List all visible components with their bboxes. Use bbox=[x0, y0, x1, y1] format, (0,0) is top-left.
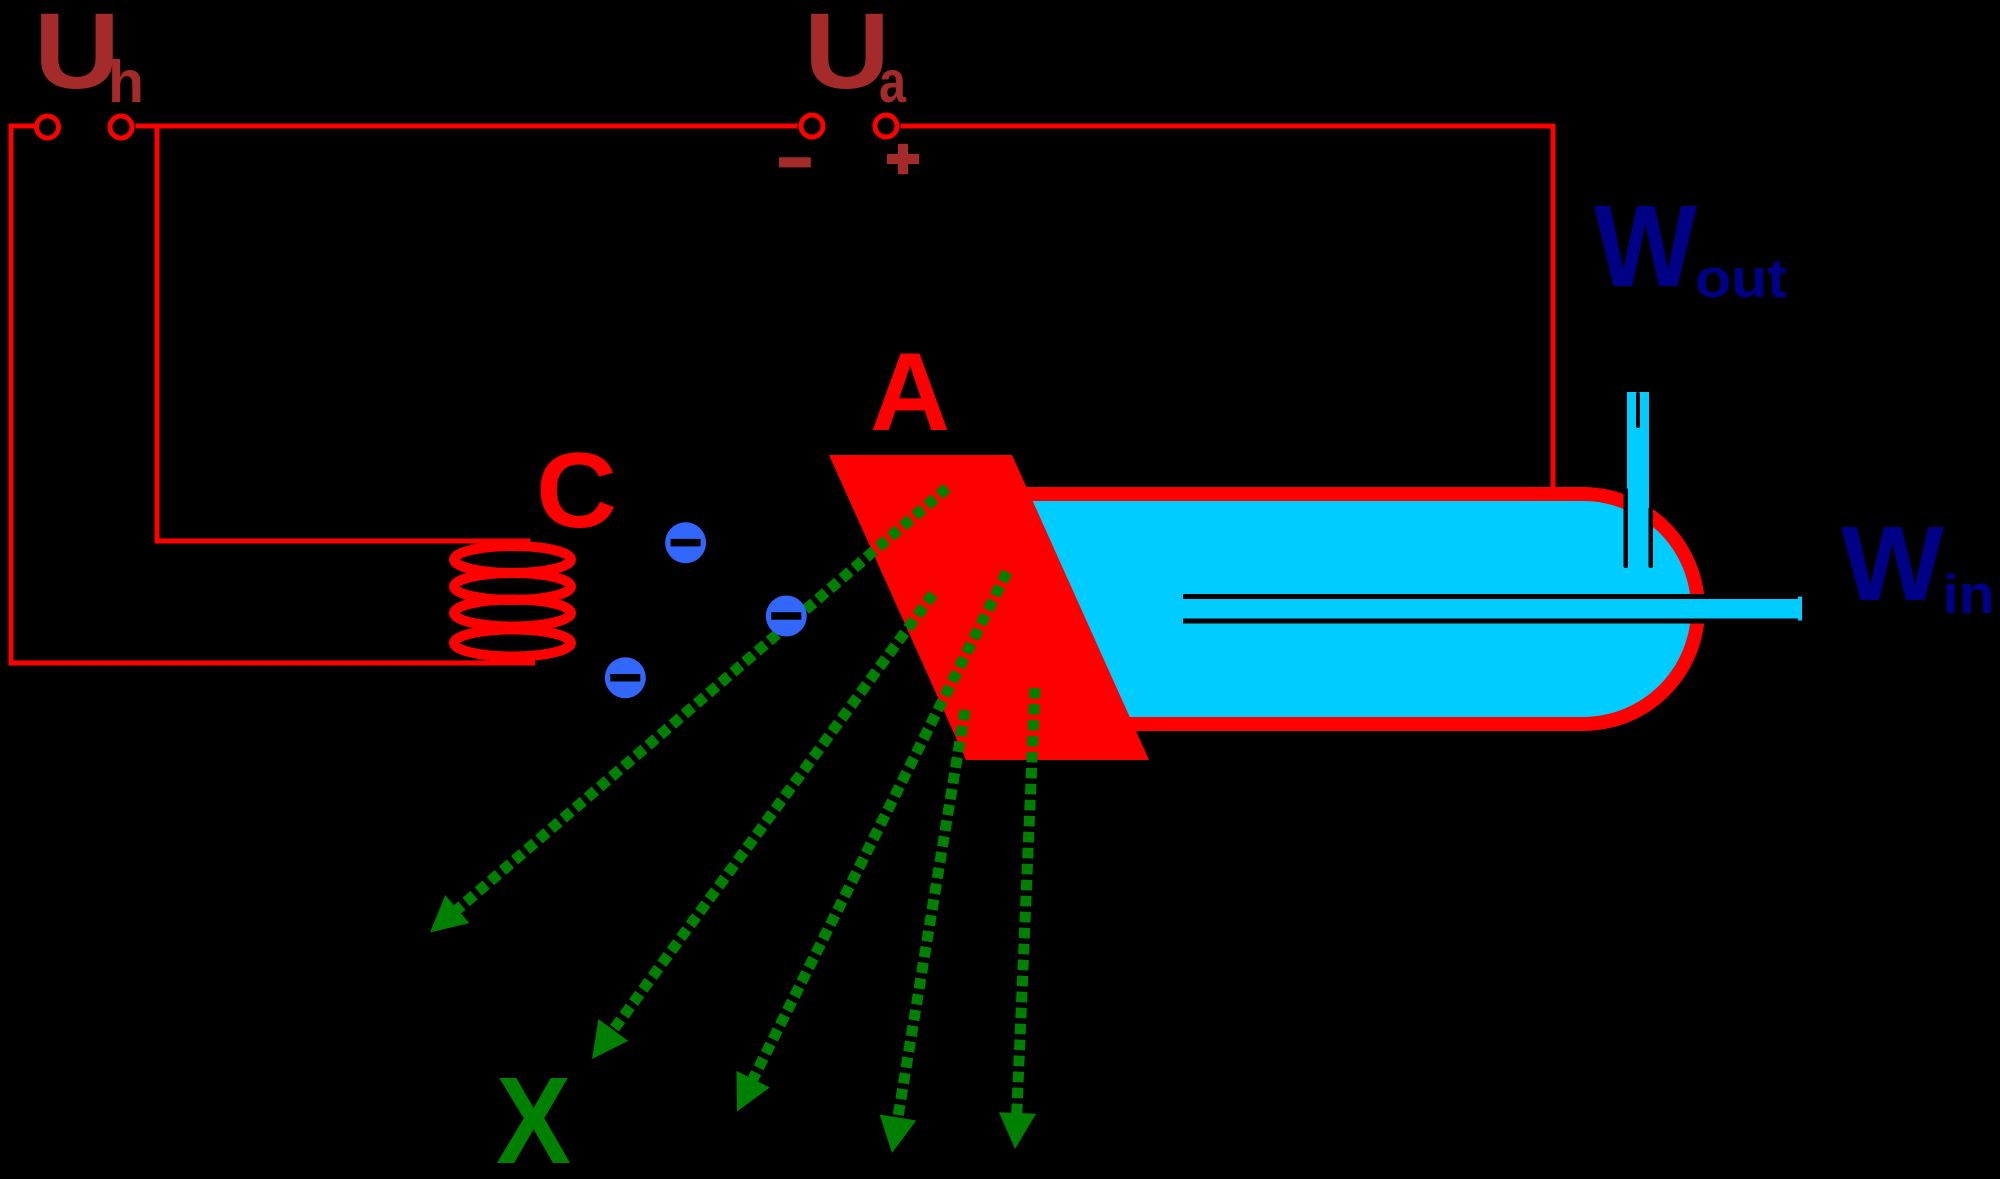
svg-text:h: h bbox=[108, 49, 144, 115]
electron e1 bbox=[665, 522, 706, 563]
svg-text:X: X bbox=[496, 1053, 571, 1179]
cathode filament coil turn 2 bbox=[454, 573, 571, 600]
electron e2 bbox=[766, 596, 807, 637]
x-ray beam 2 arrowhead bbox=[592, 1019, 628, 1059]
svg-text:U: U bbox=[804, 0, 890, 111]
minus sign at Ua bbox=[779, 157, 811, 167]
wire: top from Uh to Ua bbox=[136, 124, 798, 129]
x-ray beam 5 arrowhead bbox=[999, 1112, 1036, 1149]
water inlet pipe (horizontal) cyan bbox=[1300, 599, 1797, 619]
outlet pipe right wall bbox=[1649, 507, 1654, 568]
anode A (red parallelogram) bbox=[829, 455, 1149, 760]
x-ray beam 4 (dashed) bbox=[895, 710, 965, 1135]
cathode filament coil turn 3 bbox=[454, 600, 571, 627]
x-ray beam 3 (dashed) bbox=[745, 572, 1007, 1095]
terminal Uh left bbox=[37, 116, 59, 138]
terminal Uh right bbox=[110, 116, 132, 138]
plus sign at Ua bbox=[887, 154, 919, 164]
svg-text:out: out bbox=[1695, 247, 1787, 309]
inlet pipe bottom wall bbox=[1183, 619, 1798, 624]
x-ray beam 1 (dashed) bbox=[444, 488, 947, 921]
electron e3 bbox=[605, 657, 646, 698]
terminal Ua right bbox=[875, 115, 897, 137]
outlet pipe inner notch line bbox=[1636, 392, 1640, 428]
water tank cyan inner bbox=[1005, 501, 1691, 717]
cathode filament coil turn 1 bbox=[454, 546, 571, 573]
x-ray beam 3 arrowhead bbox=[737, 1071, 770, 1112]
terminal Ua left bbox=[801, 115, 823, 137]
x-ray beam 4 arrowhead bbox=[880, 1115, 917, 1154]
wire: from Ua to anode circuit right side bbox=[901, 126, 1554, 492]
inlet pipe end flare bbox=[1797, 597, 1802, 621]
svg-text:in: in bbox=[1943, 563, 1995, 625]
x-ray beam 1 arrowhead bbox=[430, 895, 469, 932]
inlet pipe top wall bbox=[1183, 594, 1798, 599]
svg-text:W: W bbox=[1594, 181, 1697, 311]
water outlet pipe (vertical) cyan bbox=[1627, 392, 1649, 642]
wire: heater left loop bbox=[11, 126, 535, 663]
svg-text:C: C bbox=[536, 430, 617, 550]
water tank (tube body) red outer bbox=[1005, 487, 1705, 731]
svg-text:A: A bbox=[870, 330, 950, 454]
x-ray beam 5 (dashed) bbox=[1016, 688, 1035, 1131]
svg-text:a: a bbox=[879, 49, 907, 115]
svg-text:W: W bbox=[1841, 505, 1944, 623]
wire: cathode branch down to coil bbox=[157, 126, 530, 541]
cathode filament coil turn 4 bbox=[454, 630, 571, 657]
x-ray beam 2 (dashed) bbox=[603, 594, 933, 1044]
outlet pipe left wall bbox=[1624, 488, 1629, 568]
